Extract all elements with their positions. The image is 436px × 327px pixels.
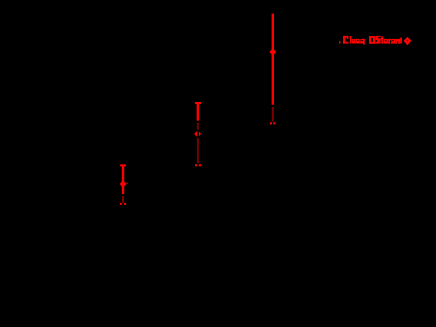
error bar B top cap [195,102,201,104]
black notch in s3 [392,40,394,41]
error bar A dim line [272,107,274,122]
error bar A bottom cap right dot [273,122,275,124]
baseline bridge s-block [394,42,397,43]
glyph t fragments [381,36,383,43]
black notch in s1 [357,40,359,41]
black notch in S upper right [378,37,380,39]
glyph a fragment 2 [384,39,388,44]
legend marker black center [406,40,408,42]
black notch in block [397,41,398,43]
error bar B bottom cap left dot [195,164,197,166]
legend marker SE edge shave [409,42,412,45]
glyph s fragment 3 [391,39,395,44]
error bar A diamond [269,48,276,55]
error bar C bottom cap right dot [124,203,126,205]
glyph l fragment [350,36,352,43]
error bar B diamond black stripe [197,130,199,139]
error bar A bright line [272,14,274,105]
error bar B dim line upper [197,123,199,131]
error bar C bottom cap left dot [120,203,122,205]
stray fragment left of C [339,41,340,44]
legend marker red diamond [404,37,412,45]
error bar C bright line [122,164,124,194]
legend text: chopped red "Class II Stars" (pixel fragments) [339,36,400,45]
black notch in S lower left [375,40,377,42]
baseline bridge a-r [387,42,390,43]
black notch in a2 [385,40,387,41]
error bar C dim line [122,196,124,203]
black notch in s2 [361,40,363,41]
error bar C diamond right nub [127,183,128,184]
glyph a fragment [352,39,355,44]
baseline bridge s-s [360,42,361,43]
error bar B diamond [194,130,201,137]
error bar B dim line lower [197,138,199,163]
glyph r fragments [388,39,390,44]
legend key sample red errorbar line [400,38,402,44]
red block between text and key sample [396,39,400,44]
baseline bridge r-s [390,42,393,43]
baseline bridge a-s [354,42,357,43]
black notch in a1 [353,40,354,41]
error bar A bottom cap left dot [270,122,272,124]
glyph I fragment 1+2 (serifed II) [369,36,375,38]
glyph s fragment 1 [356,39,360,44]
error bar C top cap [120,164,126,166]
error bar B bottom cap right dot [199,164,201,166]
baseline bridge t-a [382,42,385,43]
error bar B bright line [197,102,199,121]
glyph s fragment 2 [360,39,364,44]
glyph C fragments [343,36,348,38]
error bar C diamond [120,181,127,188]
glyph S block [375,36,380,44]
